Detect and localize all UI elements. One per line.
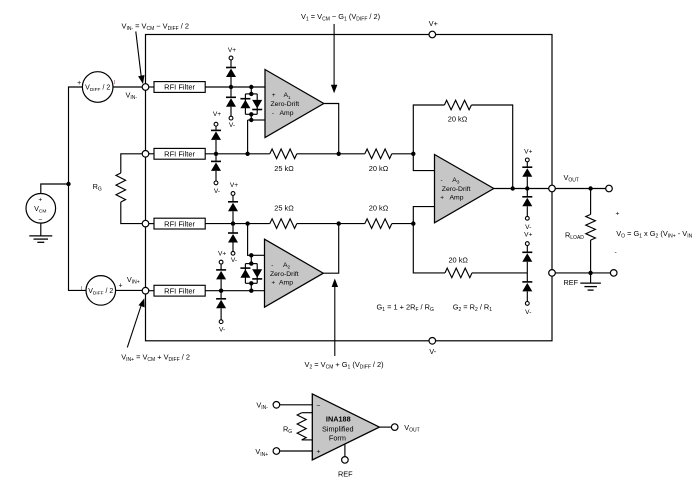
junction A1 -input bbox=[249, 118, 253, 122]
svg-text:20 kΩ: 20 kΩ bbox=[448, 115, 468, 124]
annotation VIN+ equation with arrow bbox=[121, 298, 190, 363]
svg-text:Simplified: Simplified bbox=[322, 424, 354, 433]
svg-text:V-: V- bbox=[231, 257, 237, 264]
junction row3 A2 feedback bbox=[245, 221, 249, 225]
svg-text:V-: V- bbox=[429, 347, 436, 356]
resistor RF 25k bottom bbox=[270, 204, 297, 229]
svg-text:Zero-Drift: Zero-Drift bbox=[270, 271, 299, 278]
voltage source VCM bbox=[26, 194, 56, 224]
annotation VIN- equation with arrow bbox=[122, 22, 190, 84]
junction RLOAD bottom bbox=[588, 271, 592, 275]
diode clamp input 4 to V- bbox=[216, 291, 226, 320]
diode clamp output to V+ bbox=[522, 162, 532, 189]
V- terminal input 4 bbox=[219, 320, 225, 334]
diode clamp input 3 to V- bbox=[228, 224, 238, 252]
svg-text:RFI Filter: RFI Filter bbox=[164, 286, 195, 295]
V+ terminal input 3 bbox=[230, 182, 238, 195]
svg-text:Amp: Amp bbox=[450, 195, 464, 202]
op-amp INA188 simplified bbox=[312, 394, 379, 460]
resistor RF 25k top bbox=[270, 149, 297, 173]
V+ terminal input 2 bbox=[213, 111, 221, 126]
junction A2 -input bbox=[249, 253, 253, 257]
svg-text:l: l bbox=[81, 286, 82, 292]
op-amp A2 bbox=[265, 239, 324, 307]
svg-text:INA188: INA188 bbox=[326, 415, 351, 424]
junction row3 A3 input bbox=[411, 221, 415, 225]
wire A1 output bbox=[324, 104, 339, 154]
svg-text:l: l bbox=[114, 80, 115, 86]
wire pin to RFI filter 4 bbox=[149, 290, 154, 292]
junction row3 clamp bbox=[231, 221, 235, 225]
svg-text:20 kΩ: 20 kΩ bbox=[448, 256, 468, 265]
wire RFI2 to 25k bbox=[205, 153, 270, 155]
diode clamp input 2 to V- bbox=[211, 154, 221, 181]
svg-text:+: + bbox=[38, 197, 42, 204]
svg-text:V+: V+ bbox=[213, 111, 221, 118]
svg-text:20 kΩ: 20 kΩ bbox=[369, 164, 389, 173]
svg-text:−: − bbox=[317, 403, 321, 410]
svg-text:Zero-Drift: Zero-Drift bbox=[271, 101, 300, 108]
RFI filter block 3 bbox=[154, 218, 205, 229]
wire VDIFF/2 sources left loop bbox=[69, 87, 87, 290]
junction row2 clamp bbox=[214, 152, 218, 156]
wire RFI4 to A2 +input bbox=[205, 290, 264, 292]
resistor R1 20k top bbox=[365, 149, 392, 173]
V+ terminal input 1 bbox=[228, 47, 236, 60]
diode clamp output to V- bbox=[522, 189, 532, 217]
node VIN+ bbox=[127, 275, 149, 294]
svg-text:+: + bbox=[616, 210, 620, 217]
node VIN- bbox=[126, 84, 149, 101]
svg-text:V-: V- bbox=[219, 327, 225, 334]
junction A1 output row2 bbox=[337, 152, 341, 156]
annotation V1 equation with arrow bbox=[301, 12, 380, 93]
svg-text:20 kΩ: 20 kΩ bbox=[369, 204, 389, 213]
svg-text:+: + bbox=[317, 449, 321, 456]
terminal VOUT simplified bbox=[391, 423, 419, 434]
wire 25k to 20k row2 bbox=[297, 153, 365, 155]
svg-text:V+: V+ bbox=[429, 19, 438, 28]
node V- pin bbox=[429, 338, 437, 356]
wire 20k to node row2 bbox=[392, 153, 414, 155]
RFI filter block 1 bbox=[154, 82, 205, 93]
junction row1 clamp bbox=[229, 85, 233, 89]
V+ terminal reference bbox=[524, 232, 532, 246]
V- terminal input 3 bbox=[231, 251, 237, 264]
wire VOUT pin to terminal bbox=[555, 188, 605, 190]
svg-text:V-: V- bbox=[525, 224, 531, 231]
wire VCM to ground bbox=[40, 223, 42, 236]
junction row4 clamp bbox=[219, 289, 223, 293]
resistor R2 20k feedback bottom bbox=[413, 224, 527, 278]
svg-text:25 kΩ: 25 kΩ bbox=[274, 204, 294, 213]
diode clamp input 3 to V+ bbox=[228, 195, 238, 223]
wire A2 -input bbox=[251, 254, 264, 256]
terminal REF simplified bbox=[338, 444, 353, 478]
wire VIN- to amp bbox=[280, 404, 313, 406]
svg-text:V-: V- bbox=[229, 122, 235, 129]
voltage source VDIFF/2 bottom bbox=[81, 276, 123, 306]
svg-text:+: + bbox=[440, 195, 444, 202]
svg-text:+: + bbox=[272, 92, 276, 99]
annotation V2 equation with arrow bbox=[305, 279, 384, 371]
wire 20k to node row3 bbox=[392, 223, 414, 225]
svg-text:V+: V+ bbox=[524, 232, 532, 239]
svg-text:A3​: A3​ bbox=[452, 177, 460, 185]
node RG pin bottom bbox=[142, 220, 149, 227]
V- terminal input 2 bbox=[214, 181, 220, 195]
antiparallel diode pair A1 bbox=[240, 87, 262, 120]
resistor RG external bbox=[93, 154, 143, 224]
resistor RLOAD bbox=[565, 189, 595, 273]
svg-text:V+: V+ bbox=[228, 47, 236, 54]
RFI filter block 2 bbox=[154, 148, 205, 159]
V- terminal output bbox=[525, 216, 531, 231]
diode clamp input 1 to V- bbox=[226, 87, 236, 116]
wire VIN+ to amp bbox=[280, 450, 313, 452]
wire row3 to A2 -input bbox=[248, 224, 252, 256]
junction row1 diff clamp bbox=[249, 85, 253, 89]
annotation output equation bbox=[615, 210, 693, 256]
wire VDIFF/2 top to VIN- pin bbox=[113, 86, 142, 88]
svg-text:+: + bbox=[271, 280, 275, 287]
V+ terminal output bbox=[524, 148, 532, 162]
svg-text:25 kΩ: 25 kΩ bbox=[274, 164, 294, 173]
resistor R2 20k feedback top bbox=[413, 100, 512, 188]
voltage source VDIFF/2 top bbox=[77, 72, 115, 103]
antiparallel diode pair A2 bbox=[240, 255, 262, 290]
junction VOUT clamp bbox=[525, 186, 529, 190]
wire A3 output to VOUT pin bbox=[494, 188, 549, 190]
svg-text:V+: V+ bbox=[230, 182, 238, 189]
node RG pin top bbox=[142, 151, 149, 158]
wire RFI3 to 25k bbox=[205, 223, 270, 225]
annotation gain formulas bbox=[377, 303, 493, 314]
svg-text:V-: V- bbox=[525, 309, 531, 316]
svg-text:-: - bbox=[272, 110, 274, 117]
wire pin to RFI filter 3 bbox=[149, 223, 154, 225]
svg-text:RFI Filter: RFI Filter bbox=[164, 83, 195, 92]
op-amp A3 bbox=[435, 155, 494, 223]
junction VCM branch bbox=[66, 182, 70, 186]
svg-text:RFI Filter: RFI Filter bbox=[164, 219, 195, 228]
svg-text:Zero-Drift: Zero-Drift bbox=[442, 186, 471, 193]
junction row2 A3 input bbox=[411, 152, 415, 156]
op-amp A1 bbox=[265, 70, 324, 138]
diode clamp input 1 to V+ bbox=[226, 60, 236, 87]
svg-text:-: - bbox=[441, 177, 443, 184]
wire REF to ground bbox=[590, 273, 592, 283]
wire A1 -input to row2 bbox=[251, 119, 265, 121]
wire VDIFF/2 bottom to VIN+ pin bbox=[116, 289, 143, 291]
wire pin to RFI filter 2 bbox=[149, 153, 154, 155]
svg-text:−: − bbox=[38, 217, 42, 224]
wire amp output simplified bbox=[379, 426, 391, 428]
svg-text:+: + bbox=[77, 80, 81, 87]
node VOUT pin bbox=[549, 173, 579, 192]
wire REF pin to terminal bbox=[555, 272, 610, 274]
svg-text:Amp: Amp bbox=[279, 280, 293, 287]
wire A2 output bbox=[323, 224, 338, 274]
terminal REF bbox=[610, 270, 617, 277]
svg-text:VO​ = G1​ x G2​ (VIN+​ - VIN​: VO​ = G1​ x G2​ (VIN+​ - VIN​ bbox=[616, 229, 692, 240]
svg-text:REF: REF bbox=[338, 469, 353, 478]
wire RFI1 to A1 +input bbox=[205, 86, 265, 88]
diode clamp input 2 to V+ bbox=[211, 126, 221, 154]
svg-text:+: + bbox=[119, 283, 123, 290]
wire pin to RFI filter 1 bbox=[149, 86, 154, 88]
V+ terminal input 4 bbox=[218, 251, 226, 264]
wire VCM branch bbox=[41, 184, 69, 193]
junction RLOAD top bbox=[588, 186, 592, 190]
terminal VOUT bbox=[606, 185, 613, 192]
ground VCM bbox=[29, 235, 52, 237]
ground REF bbox=[580, 282, 601, 284]
svg-text:V+: V+ bbox=[524, 148, 532, 155]
svg-text:Form: Form bbox=[329, 433, 346, 442]
node V+ pin bbox=[429, 19, 438, 38]
svg-text:-: - bbox=[615, 249, 617, 256]
svg-text:-: - bbox=[271, 262, 273, 269]
resistor RG simplified bbox=[283, 413, 312, 440]
svg-text:V+: V+ bbox=[218, 251, 226, 258]
V- terminal input 1 bbox=[229, 116, 235, 129]
diode clamp reference to V+ bbox=[522, 246, 532, 273]
IC boundary box INA188 bbox=[146, 35, 553, 341]
terminal VIN- simplified bbox=[256, 400, 279, 411]
svg-text:RFI Filter: RFI Filter bbox=[164, 150, 195, 159]
junction A3 output feedback bbox=[511, 186, 515, 190]
junction A2 output row3 bbox=[337, 221, 341, 225]
diode clamp reference to V- bbox=[522, 273, 532, 302]
wire 25k to 20k row3 bbox=[297, 223, 365, 225]
svg-text:REF: REF bbox=[564, 278, 579, 287]
V- terminal reference bbox=[525, 302, 531, 316]
node REF pin bbox=[549, 270, 579, 287]
terminal VIN+ simplified bbox=[255, 447, 279, 458]
wire row2 node to A3 -input bbox=[413, 154, 434, 171]
svg-text:Amp: Amp bbox=[280, 110, 294, 117]
RFI filter block 4 bbox=[154, 285, 205, 296]
resistor R1 20k bottom bbox=[365, 204, 392, 229]
junction row4 diff clamp bbox=[249, 289, 253, 293]
diode clamp input 4 to V+ bbox=[216, 264, 226, 291]
junction row2 A1 feedback bbox=[245, 152, 249, 156]
wire row3 node to A3 +input bbox=[413, 207, 434, 224]
svg-text:V-: V- bbox=[214, 188, 220, 195]
